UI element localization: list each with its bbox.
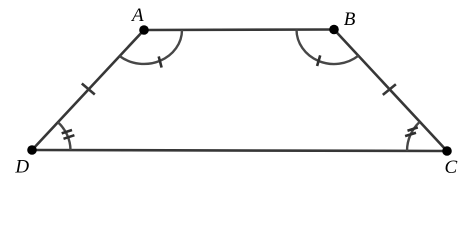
angle arc tick at B	[317, 55, 320, 66]
angle arc tick at A	[159, 56, 162, 67]
svg-text:B: B	[344, 9, 356, 30]
wire side CD	[32, 150, 447, 151]
angle arc double tick 2 at C	[405, 133, 416, 136]
wire side AB	[144, 28, 334, 31]
vertex dot D	[27, 145, 37, 155]
wire side BC	[334, 30, 447, 152]
angle arc at D	[58, 122, 71, 150]
vertex dot C	[442, 146, 452, 156]
svg-text:D: D	[14, 157, 29, 178]
angle arc at C	[407, 122, 420, 151]
svg-text:A: A	[130, 5, 144, 26]
congruence tick on side DA	[82, 84, 95, 95]
angle arc double tick 1 at C	[408, 127, 418, 130]
vertex dot B	[329, 25, 339, 35]
svg-text:C: C	[445, 157, 458, 178]
angle arc double tick 2 at D	[64, 135, 75, 139]
wire side DA	[32, 30, 144, 150]
vertex dot A	[139, 25, 149, 35]
angle arc at B	[297, 30, 359, 65]
angle arc double tick 1 at D	[62, 130, 72, 133]
angle arc at A	[120, 30, 182, 64]
congruence tick on side BC	[383, 84, 396, 95]
